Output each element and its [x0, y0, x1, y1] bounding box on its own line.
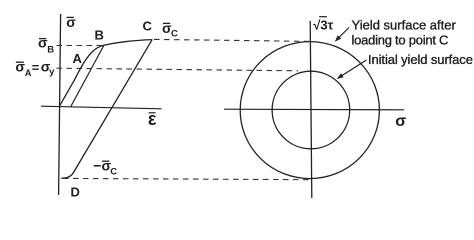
svg-text:σ: σ: [66, 14, 76, 30]
stress axis (sigma-bar) left plot: [59, 14, 61, 195]
svg-text:B: B: [47, 44, 54, 55]
svg-text:y: y: [49, 67, 55, 78]
annotation arrow to outer circle: [338, 28, 349, 39]
svg-text:C: C: [110, 167, 117, 178]
sqrt(3)tau axis (right plot vertical): [310, 21, 312, 198]
svg-text:A: A: [73, 51, 83, 66]
inner initial yield circle: [272, 71, 350, 149]
dashed level sigma-C to outer circle top: [154, 39, 312, 41]
svg-text:loading to point C: loading to point C: [352, 32, 449, 47]
reverse loading line C to D: [61, 40, 152, 179]
dashed level minus sigma-C to outer circle bottom: [63, 178, 311, 179]
annotation arrow to inner circle: [341, 60, 367, 77]
dashed level sigma-A to inner circle: [57, 68, 299, 71]
svg-text:−σ: −σ: [93, 158, 111, 174]
svg-text:σ: σ: [395, 113, 406, 130]
svg-text:√3τ: √3τ: [313, 18, 333, 33]
sigma axis (right plot horizontal): [224, 108, 404, 111]
loading curve O-A-B-C: [59, 40, 152, 107]
strain axis (epsilon-bar) left plot: [41, 106, 162, 109]
svg-text:C: C: [171, 28, 178, 39]
svg-text:ε: ε: [148, 109, 157, 129]
svg-text:σ: σ: [15, 59, 25, 75]
unload-reload line near origin: [71, 46, 104, 107]
svg-text:B: B: [95, 28, 104, 43]
svg-text:D: D: [71, 185, 80, 200]
svg-text:Yield surface after: Yield surface after: [352, 18, 457, 33]
svg-text:C: C: [143, 19, 153, 34]
dashed level sigma-B: [57, 45, 104, 47]
svg-text:Initial yield surface: Initial yield surface: [368, 52, 473, 67]
svg-text:=: =: [32, 60, 40, 75]
outer yield circle (after loading to C): [240, 42, 379, 179]
